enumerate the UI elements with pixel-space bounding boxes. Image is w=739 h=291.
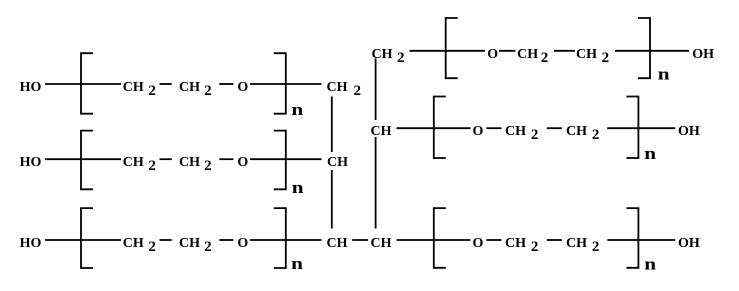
bond CH to O, arm R3: [397, 239, 471, 241]
svg-text:n: n: [292, 179, 304, 198]
svg-text:CH: CH: [505, 236, 526, 251]
svg-text:n: n: [658, 66, 670, 85]
svg-text:CH: CH: [123, 80, 144, 95]
bond HO to CH2, arm L3: [45, 239, 121, 241]
svg-text:CH: CH: [517, 47, 538, 62]
svg-text:O: O: [237, 236, 248, 251]
svg-text:CH: CH: [576, 47, 597, 62]
svg-text:CH: CH: [179, 155, 200, 170]
svg-text:CH: CH: [566, 236, 587, 251]
bond CH2 to bracket, arm R3: [607, 239, 638, 241]
svg-text:O: O: [237, 155, 248, 170]
svg-text:HO: HO: [20, 236, 42, 251]
svg-text:CH: CH: [566, 124, 587, 139]
repeat bracket close, arm L3: [274, 208, 286, 268]
svg-text:OH: OH: [692, 47, 714, 62]
svg-text:CH: CH: [372, 47, 393, 62]
bond to OH, arm R3: [638, 239, 675, 241]
bond to OH, arm R1: [650, 50, 689, 52]
svg-text:n: n: [291, 255, 303, 274]
svg-text:2: 2: [354, 83, 362, 99]
bond CH2 to bracket, arm R2: [607, 127, 638, 129]
svg-text:2: 2: [602, 50, 610, 66]
bond CH2-CH2, arm R2: [547, 127, 562, 129]
svg-text:O: O: [473, 124, 484, 139]
repeat bracket close, arm L1: [274, 53, 286, 113]
svg-text:2: 2: [148, 239, 156, 255]
repeat bracket open, arm L2: [81, 131, 93, 190]
svg-text:CH: CH: [371, 236, 392, 251]
svg-text:CH: CH: [327, 236, 348, 251]
bond HO to CH2, arm L2: [45, 158, 121, 160]
bond CH2-CH2, arm L3: [160, 239, 172, 241]
svg-text:HO: HO: [20, 80, 42, 95]
svg-text:O: O: [473, 236, 484, 251]
svg-text:CH: CH: [179, 236, 200, 251]
bond O to backbone, arm L1: [250, 83, 322, 85]
svg-text:2: 2: [531, 239, 539, 255]
svg-text:O: O: [487, 47, 498, 62]
svg-text:n: n: [291, 101, 303, 120]
bond O to backbone, arm L3: [250, 239, 322, 241]
svg-text:CH: CH: [327, 80, 348, 95]
svg-text:CH: CH: [123, 236, 144, 251]
svg-text:CH: CH: [371, 124, 392, 139]
bond O-CH2, arm R1: [499, 50, 515, 52]
bond CH2-CH2, arm R1: [554, 50, 575, 52]
repeat bracket open, arm L3: [81, 208, 93, 268]
svg-text:O: O: [237, 80, 248, 95]
repeat bracket close, arm R2: [626, 97, 638, 159]
bond C3-C4 backbone: [352, 239, 368, 241]
svg-text:2: 2: [541, 50, 549, 66]
svg-text:OH: OH: [678, 124, 700, 139]
svg-text:2: 2: [592, 239, 600, 255]
svg-text:2: 2: [148, 83, 156, 99]
bond C4-C5 backbone: [375, 137, 377, 229]
svg-text:2: 2: [397, 50, 405, 66]
repeat bracket open, arm R1: [446, 18, 458, 78]
bond CH2-CH2, arm R3: [547, 239, 562, 241]
bond C5-C6 backbone: [375, 58, 377, 120]
bond O-CH2, arm R3: [486, 239, 501, 241]
bond CH2-O, arm L2: [219, 158, 233, 160]
svg-text:2: 2: [592, 127, 600, 143]
bond CH2 to bracket, arm R1: [615, 50, 650, 52]
svg-text:2: 2: [204, 83, 212, 99]
svg-text:2: 2: [148, 158, 156, 174]
bond CH2-O, arm L1: [219, 83, 233, 85]
bond to OH, arm R2: [638, 127, 675, 129]
repeat bracket close, arm R1: [638, 18, 650, 78]
bond O to backbone, arm L2: [250, 158, 322, 160]
bond CH2-CH2, arm L2: [160, 158, 172, 160]
bond CH2-O, arm L3: [219, 239, 233, 241]
svg-text:CH: CH: [179, 80, 200, 95]
bond CH2-CH2, arm L1: [160, 83, 172, 85]
bond CH2 to O, arm R1: [410, 50, 486, 52]
svg-text:n: n: [644, 255, 656, 274]
svg-text:2: 2: [204, 158, 212, 174]
bond CH to O, arm R2: [397, 127, 471, 129]
repeat bracket open, arm R3: [434, 208, 446, 268]
svg-text:CH: CH: [327, 155, 348, 170]
repeat bracket close, arm R3: [626, 208, 638, 268]
svg-text:OH: OH: [678, 236, 700, 251]
svg-text:CH: CH: [505, 124, 526, 139]
svg-text:2: 2: [531, 127, 539, 143]
bond C1-C2 backbone: [331, 97, 333, 153]
svg-text:HO: HO: [20, 155, 42, 170]
repeat bracket close, arm L2: [274, 131, 286, 190]
svg-text:2: 2: [204, 239, 212, 255]
svg-text:CH: CH: [123, 155, 144, 170]
bond HO to CH2, arm L1: [45, 83, 121, 85]
bond C2-C3 backbone: [331, 170, 333, 229]
repeat bracket open, arm R2: [434, 97, 446, 159]
svg-text:n: n: [644, 145, 656, 164]
bond O-CH2, arm R2: [486, 127, 501, 129]
repeat bracket open, arm L1: [81, 53, 93, 113]
